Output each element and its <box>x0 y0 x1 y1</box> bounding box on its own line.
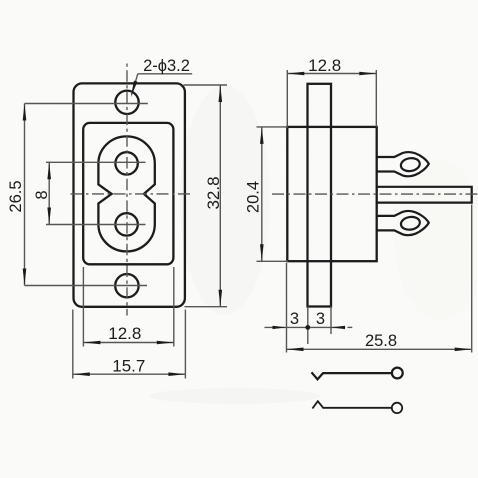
svg-text:3: 3 <box>290 310 299 328</box>
side view: center earth pin <box>377 187 472 203</box>
side view: lower solder lug <box>377 211 429 235</box>
dimension 12.8 (side) <box>287 70 376 127</box>
dimension 20.4 <box>257 127 289 261</box>
svg-text:8: 8 <box>33 190 51 199</box>
dimension 25.8 <box>287 205 472 353</box>
extension line through upper contact <box>46 161 146 163</box>
svg-text:12.8: 12.8 <box>108 324 141 343</box>
svg-text:3: 3 <box>316 310 325 328</box>
dimension 15.7 <box>73 310 186 379</box>
front view: vertical centerline <box>126 64 128 316</box>
front view: upper contact hole <box>115 152 137 174</box>
extension line through lower contact <box>46 224 146 226</box>
dimension 8 <box>48 162 50 224</box>
faint scan smudges <box>150 85 478 404</box>
dimension 12.8 (front) <box>83 267 173 347</box>
label 2-phi3.2 with leader <box>132 74 193 95</box>
side view: mounting flange plate <box>308 84 332 307</box>
side view: horizontal centerline <box>272 193 478 195</box>
front view: inner recess outline <box>83 123 173 264</box>
front view: lower contact hole <box>115 213 137 235</box>
contact symbol pin 2 <box>312 401 402 413</box>
front view: outer flange outline <box>74 83 185 306</box>
svg-text:15.7: 15.7 <box>112 356 145 375</box>
svg-text:25.8: 25.8 <box>365 332 397 350</box>
svg-text:26.5: 26.5 <box>7 180 25 212</box>
contact symbol pin 1 <box>312 368 403 380</box>
dimension 3 3 <box>265 307 353 345</box>
dimension 32.8 <box>184 85 228 307</box>
svg-text:32.8: 32.8 <box>204 176 223 209</box>
extension line through bottom mounting hole <box>25 285 148 287</box>
front view: top mounting hole <box>115 91 138 114</box>
svg-text:20.4: 20.4 <box>244 181 262 213</box>
side view: main body <box>287 127 376 261</box>
front view: horizontal centerline at waist <box>71 193 192 195</box>
front view: bottom mounting hole <box>115 274 138 297</box>
svg-text:2-ϕ3.2: 2-ϕ3.2 <box>143 57 190 75</box>
dimension 26.5 <box>24 104 26 286</box>
extension line through top mounting hole <box>25 103 148 105</box>
svg-text:12.8: 12.8 <box>308 56 341 75</box>
side view: upper solder lug <box>377 152 429 176</box>
front view: figure-8 socket opening <box>98 136 154 251</box>
